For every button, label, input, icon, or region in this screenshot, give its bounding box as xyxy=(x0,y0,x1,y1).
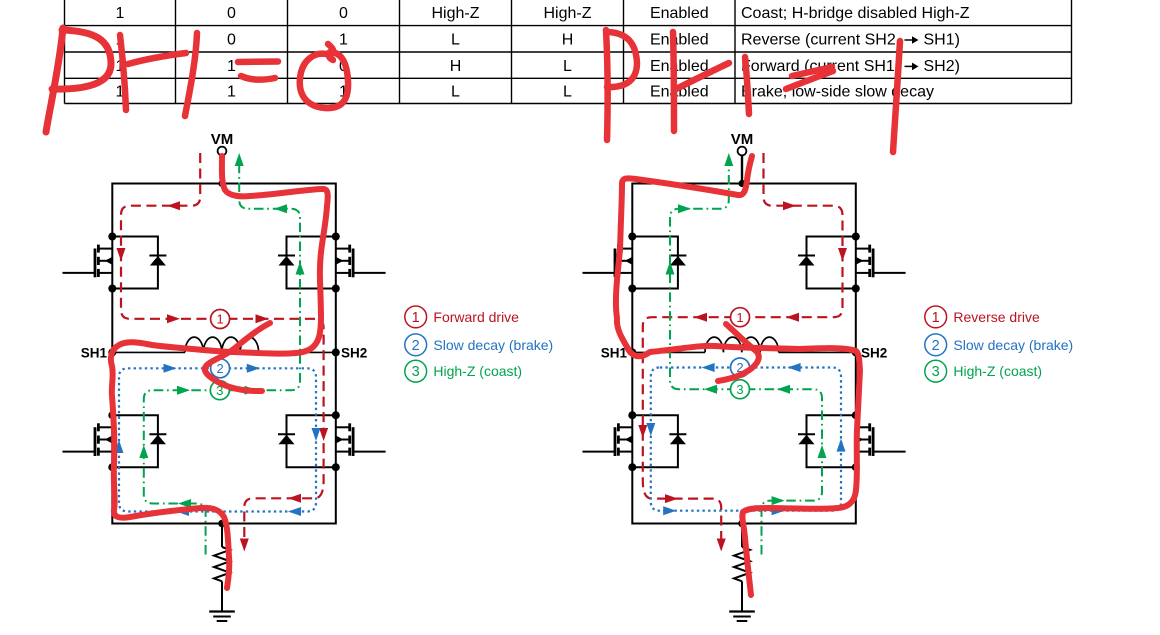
path marker 3 left xyxy=(210,381,229,400)
junction dot right xyxy=(628,233,636,241)
svg-text:Enabled: Enabled xyxy=(650,31,709,48)
junction dot right xyxy=(852,233,860,241)
junction dot right xyxy=(628,411,636,419)
motor winding L1 left xyxy=(185,337,259,352)
svg-text:Coast; H-bridge disabled High-: Coast; H-bridge disabled High-Z xyxy=(741,5,970,22)
arrow path1 left xyxy=(256,314,269,323)
body diode D4 left xyxy=(287,415,336,467)
arrow path1 left xyxy=(240,539,249,552)
node SH2 right xyxy=(852,348,860,356)
svg-text:0: 0 xyxy=(227,31,236,48)
legend item 3 xyxy=(405,360,427,382)
body diode D2 right xyxy=(807,237,856,289)
annotation stroke: H leg1 (right) xyxy=(673,32,674,131)
svg-text:L: L xyxy=(563,58,572,75)
body diode D1 right xyxy=(632,237,678,289)
body diode D4 right xyxy=(807,415,856,467)
current path 1 forward drive (red dashed, left) xyxy=(121,153,324,547)
node VM junction right xyxy=(738,180,745,187)
arrow path1 right xyxy=(694,313,707,322)
svg-text:3: 3 xyxy=(932,364,940,380)
node SH1 right xyxy=(628,348,636,356)
junction dot right xyxy=(852,411,860,419)
wire SH1 to motor left xyxy=(112,351,185,353)
svg-text:High-Z: High-Z xyxy=(543,5,591,22)
arrow path3 right xyxy=(818,445,827,458)
arrow path2 right xyxy=(702,363,715,372)
arrow path2 left xyxy=(288,507,301,516)
svg-text:L: L xyxy=(451,84,460,101)
junction dot left xyxy=(332,285,340,293)
junction dot right xyxy=(852,463,860,471)
VM terminal left xyxy=(218,147,227,156)
arrow path3 right xyxy=(678,204,691,213)
node bottom center right xyxy=(738,520,746,528)
svg-text:Slow decay (brake): Slow decay (brake) xyxy=(433,337,553,353)
current path 3 coast (green dash-dot, left) xyxy=(144,165,300,555)
annotation stroke: one (right) xyxy=(893,41,900,152)
node VM junction left xyxy=(218,180,225,187)
arrow path2 left xyxy=(176,507,189,516)
svg-text:1: 1 xyxy=(116,5,125,22)
transistor Q1 left xyxy=(63,245,113,278)
svg-text:SH1): SH1) xyxy=(924,31,960,48)
annotation stroke: reverse trace lower (right circuit) xyxy=(628,346,860,595)
annotation stroke: crossing stroke (left circuit) xyxy=(205,323,270,391)
wire motor to SH2 left xyxy=(259,351,336,353)
svg-text:1: 1 xyxy=(736,310,743,325)
annotation stroke: H leg2 (right) xyxy=(745,57,749,114)
current path 1 reverse drive (red dashed, right) xyxy=(643,153,843,547)
path marker 3 right xyxy=(731,380,750,399)
current path 2 slow decay (blue dotted, left) xyxy=(119,368,316,511)
path marker 1 left xyxy=(211,310,230,329)
svg-text:High-Z (coast): High-Z (coast) xyxy=(433,363,522,379)
arrow path2 right xyxy=(663,506,676,515)
svg-text:SH2: SH2 xyxy=(341,346,367,361)
annotation stroke: H crossbar (right) xyxy=(676,63,729,89)
transistor Q4 left xyxy=(336,423,386,456)
wire resistor to ground left xyxy=(221,581,223,611)
svg-text:VM: VM xyxy=(731,131,754,148)
annotation stroke: equals top (right) xyxy=(792,67,832,76)
bridge outer rails left xyxy=(112,184,335,524)
bridge outer rails right xyxy=(632,184,856,524)
svg-text:1: 1 xyxy=(932,310,940,326)
annotation stroke: equals bottom (left) xyxy=(241,76,275,80)
ground right xyxy=(729,612,755,622)
svg-text:H: H xyxy=(562,31,574,48)
svg-text:Reverse drive: Reverse drive xyxy=(953,309,1040,325)
annotation stroke: P bowl (right PH=1) xyxy=(607,32,637,87)
arrow path1 right xyxy=(665,494,678,503)
annotation stroke: forward trace (left circuit) xyxy=(111,156,328,588)
annotation stroke: H crossbar (left) xyxy=(128,53,186,64)
current path 2 slow decay (blue dotted, right) xyxy=(651,368,841,511)
junction dot left xyxy=(108,463,116,471)
svg-text:2: 2 xyxy=(932,338,940,354)
arrow path3 left xyxy=(235,153,244,166)
annotation stroke: equals top (left) xyxy=(238,58,278,65)
svg-text:SH2): SH2) xyxy=(924,58,960,75)
transistor Q2 right xyxy=(856,245,906,278)
junction dot left xyxy=(108,411,116,419)
arrow path1 left xyxy=(117,248,126,261)
body diode D2 left xyxy=(287,237,336,289)
svg-text:High-Z: High-Z xyxy=(431,5,479,22)
legend item 2 xyxy=(925,334,947,356)
arrow path1 left xyxy=(288,494,301,503)
junction dot left xyxy=(332,411,340,419)
path marker 2 left xyxy=(211,359,230,378)
arrow path1 right xyxy=(783,201,796,210)
annotation stroke: H leg1 (left) xyxy=(120,35,126,110)
svg-text:Slow decay (brake): Slow decay (brake) xyxy=(953,337,1073,353)
arrow path3 left xyxy=(296,262,305,275)
transistor Q1 right xyxy=(583,245,633,278)
arrow path3 right xyxy=(704,385,717,394)
arrow path3 right xyxy=(724,153,733,166)
annotation stroke: zero (left) xyxy=(300,44,348,108)
junction dot left xyxy=(332,463,340,471)
svg-text:Enabled: Enabled xyxy=(650,58,709,75)
wire VM to top rail right xyxy=(741,155,743,183)
legend item 1 xyxy=(405,306,427,328)
arrow path3 right xyxy=(772,496,785,505)
annotation stroke: P stem (right PH=1) xyxy=(606,30,608,140)
arrow path2 right xyxy=(837,439,846,452)
arrow path3 left xyxy=(274,204,287,213)
annotation stroke: H leg2 (left) xyxy=(185,33,197,116)
arrow path1 right xyxy=(717,539,726,552)
arrow path3 left xyxy=(245,386,258,395)
svg-text:Brake; low-side slow decay: Brake; low-side slow decay xyxy=(741,84,934,101)
arrow path2 left xyxy=(115,440,124,453)
ground left xyxy=(209,612,235,622)
arrow path3 right xyxy=(666,262,675,275)
svg-text:1: 1 xyxy=(339,31,348,48)
legend item 3 xyxy=(925,360,947,382)
annotation stroke: P stem (left PH=0) xyxy=(46,28,63,132)
svg-text:SH2: SH2 xyxy=(861,346,887,361)
legend item 2 xyxy=(405,334,427,356)
svg-text:H: H xyxy=(450,58,462,75)
svg-text:3: 3 xyxy=(736,382,743,397)
svg-text:0: 0 xyxy=(339,5,348,22)
sense resistor R left xyxy=(214,547,230,581)
svg-text:1: 1 xyxy=(227,84,236,101)
svg-text:Reverse (current SH2: Reverse (current SH2 xyxy=(741,31,896,48)
junction dot left xyxy=(332,233,340,241)
arrow path2 right xyxy=(788,363,801,372)
sense resistor R right xyxy=(734,547,750,581)
body diode D3 right xyxy=(632,415,678,467)
svg-text:L: L xyxy=(563,84,572,101)
transistor Q2 left xyxy=(336,245,386,278)
body diode D3 left xyxy=(112,415,158,467)
arrow path3 left xyxy=(178,499,191,508)
node SH1 left xyxy=(108,348,116,356)
junction dot right xyxy=(628,463,636,471)
arrow path1 left xyxy=(167,201,180,210)
node bottom center left xyxy=(218,520,226,528)
svg-text:0: 0 xyxy=(227,5,236,22)
annotation stroke: crossing stroke (right circuit) xyxy=(718,324,759,381)
wire motor to SH2 right xyxy=(779,351,856,353)
svg-text:1: 1 xyxy=(412,310,420,326)
svg-text:2: 2 xyxy=(216,361,223,376)
path marker 1 right xyxy=(731,308,750,327)
transistor Q4 right xyxy=(856,423,906,456)
arrow path3 left xyxy=(139,445,148,458)
junction dot right xyxy=(628,285,636,293)
arrow path1 right xyxy=(786,313,799,322)
annotation stroke: equals bottom (right) xyxy=(786,71,833,89)
svg-text:2: 2 xyxy=(412,338,420,354)
svg-text:High-Z (coast): High-Z (coast) xyxy=(953,363,1042,379)
table text xyxy=(116,5,970,100)
svg-text:Forward drive: Forward drive xyxy=(433,309,519,325)
arrow path2 left xyxy=(164,364,177,373)
arrow path1 right xyxy=(638,425,647,438)
svg-text:SH1: SH1 xyxy=(601,346,628,361)
node SH2 left xyxy=(332,348,340,356)
wire to sense resistor right xyxy=(741,524,743,548)
wire SH1 to motor right xyxy=(632,351,705,353)
junction dot left xyxy=(108,233,116,241)
arrow path2 right xyxy=(646,423,655,436)
VM terminal right xyxy=(738,147,747,156)
svg-text:SH1: SH1 xyxy=(81,346,108,361)
arrow path2 left xyxy=(247,364,260,373)
arrow path2 right xyxy=(772,506,785,515)
transistor Q3 left xyxy=(63,423,113,456)
junction dot right xyxy=(852,285,860,293)
transistor Q3 right xyxy=(583,423,633,456)
svg-text:1: 1 xyxy=(227,58,236,75)
arrow path1 left xyxy=(319,428,328,441)
wire to sense resistor left xyxy=(221,524,223,548)
junction dot left xyxy=(108,285,116,293)
truth table grid xyxy=(65,0,1072,104)
svg-text:1: 1 xyxy=(216,312,223,327)
arrow path1 right xyxy=(838,248,847,261)
svg-text:VM: VM xyxy=(211,131,234,148)
wire resistor to ground right xyxy=(741,581,743,611)
annotation stroke: P bowl (left PH=0) xyxy=(52,30,111,89)
svg-text:Enabled: Enabled xyxy=(650,5,709,22)
motor winding L1 right xyxy=(705,337,779,352)
arrow path3 right xyxy=(777,385,790,394)
path marker 2 right xyxy=(731,358,750,377)
wire VM to top rail left xyxy=(221,155,223,183)
arrow path3 left xyxy=(177,386,190,395)
arrow path1 left xyxy=(167,314,180,323)
arrow path2 left xyxy=(312,428,321,441)
annotation stroke: reverse trace upper (right circuit) xyxy=(616,156,752,352)
svg-text:3: 3 xyxy=(412,364,420,380)
legend item 1 xyxy=(925,306,947,328)
body diode D1 left xyxy=(112,237,158,289)
current path 3 coast (green dash-dot, right) xyxy=(670,165,822,555)
svg-text:L: L xyxy=(451,31,460,48)
